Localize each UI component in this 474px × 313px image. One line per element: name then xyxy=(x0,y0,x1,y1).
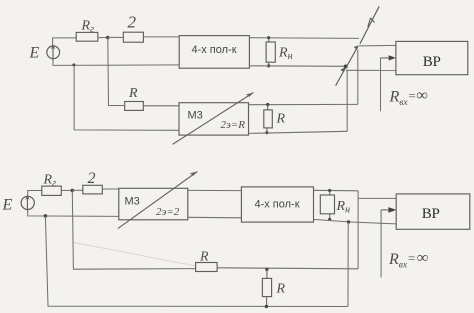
svg-text:2: 2 xyxy=(128,13,137,32)
svg-text:E: E xyxy=(2,197,13,214)
svg-text:4-х пол-к: 4-х пол-к xyxy=(254,199,299,211)
label Rg (bottom) xyxy=(43,173,57,190)
BP box (bottom circuit) xyxy=(396,194,470,229)
resistor Rn (load, bottom circuit) xyxy=(320,191,334,220)
node Rn top junction (bottom circuit) xyxy=(328,189,331,192)
wire return rail to BP (bottom input) xyxy=(346,69,396,71)
wire M3 output bottom rail xyxy=(249,131,348,133)
wire E bottom return rail (left part) xyxy=(53,59,179,66)
svg-text:E: E xyxy=(29,45,40,62)
wire vertical model-top to switch corner xyxy=(357,49,359,104)
BP input arrow (top circuit) xyxy=(381,55,396,111)
label E (source EMF, top circuit) xyxy=(29,45,40,62)
node Rn bottom junction xyxy=(267,64,270,67)
wire Z to four-pole box xyxy=(143,36,179,38)
adjustment arrow through M3 (top circuit) xyxy=(173,93,254,145)
wire return rail (right part, box to lever pivot) xyxy=(249,65,345,68)
wire four-pole to right corner (top rail, bottom circuit) xyxy=(314,189,359,192)
label Rg (top) xyxy=(81,19,95,36)
label R (series resistor, lower branch bottom circuit) xyxy=(199,250,209,265)
switch lever 2 (lower throw to pivot) xyxy=(336,67,346,86)
node R-vert top junction (bottom circuit) xyxy=(265,268,268,271)
wire node A to Z xyxy=(108,36,124,38)
label R (shunt, bottom) xyxy=(276,282,286,297)
wire node A down to model branch xyxy=(108,38,125,106)
label Z (bottom) xyxy=(88,170,96,187)
wire M3 to four-pole (bottom link, bottom circuit) xyxy=(188,216,242,219)
label Z (top) xyxy=(128,13,137,32)
wire four-pole to switch contact (top rail) xyxy=(249,37,359,40)
svg-text:ВР: ВР xyxy=(422,206,440,222)
label Rn (top) xyxy=(278,46,293,63)
wire right vertical from Rn-bottom rail to bottom-most rail xyxy=(347,222,349,306)
wire node C down to R branch xyxy=(72,190,195,269)
wire E bottom return rail (bottom circuit) xyxy=(28,210,119,217)
svg-text:М3: М3 xyxy=(125,196,140,208)
switch lever 1 (pivot to top contact) xyxy=(346,45,359,68)
BP box (top circuit) xyxy=(396,41,468,74)
node Rn bottom junction (bottom circuit) xyxy=(328,218,331,221)
M3 model box (bottom circuit) xyxy=(119,188,188,220)
wire right corner vertical (top rail down) xyxy=(357,191,359,269)
wire node B down to model return xyxy=(74,65,179,130)
switch open-throw arrow (top, diagonal) xyxy=(360,6,379,44)
node B (return rail branch to model loop) xyxy=(72,63,75,66)
wire E top to Rg (bottom circuit) xyxy=(28,191,42,197)
node lever pivot (return rail) xyxy=(344,65,348,69)
node R-vert top junction (model branch) xyxy=(266,103,269,106)
wire M3 to four-pole (top link, bottom circuit) xyxy=(188,189,242,191)
node R-vert bottom junction xyxy=(265,131,268,134)
label R (series resistor, model branch top) xyxy=(128,86,138,101)
wire Rg to node C xyxy=(61,189,72,191)
label R (model load, top) xyxy=(276,112,286,127)
resistor R (model load, top circuit) xyxy=(264,105,273,133)
svg-text:4-х пол-к: 4-х пол-к xyxy=(191,44,236,56)
label Rvx = infinity (bottom circuit) xyxy=(388,250,428,271)
wire node C to Z xyxy=(72,189,83,191)
svg-text:2э=R: 2э=R xyxy=(221,119,246,131)
resistor R (model branch, top circuit) xyxy=(125,102,144,111)
wire Z to M3 box (bottom circuit) xyxy=(102,188,119,190)
svg-text:М3: М3 xyxy=(188,110,203,122)
label E (source EMF, bottom circuit) xyxy=(2,197,13,214)
M3 model box (top circuit) xyxy=(179,103,249,135)
resistor R (lower branch, bottom circuit) xyxy=(196,263,218,272)
node R-vert bottom junction (bottom circuit) xyxy=(265,305,268,308)
node right-rail branch junction xyxy=(347,220,350,223)
four-pole network box (top circuit) xyxy=(179,36,249,69)
wire switch corner to BP (top input) xyxy=(359,44,396,47)
node A (junction dot after Rg) xyxy=(106,36,110,40)
resistor Z (bottom circuit) xyxy=(83,185,103,194)
wire corner to BP (top input, bottom circuit) xyxy=(358,197,396,199)
wire Rg to node A xyxy=(98,37,108,39)
wire bottom rail to BP (bottom circuit) xyxy=(314,219,397,224)
svg-text:2: 2 xyxy=(88,170,96,187)
node D (return rail branch, bottom circuit) xyxy=(44,214,48,218)
label Rvx = infinity (top circuit) xyxy=(389,87,428,108)
svg-text:ВР: ВР xyxy=(423,54,441,70)
resistor R (shunt, bottom circuit) xyxy=(262,269,271,306)
source E2 (circle with up arrow) xyxy=(21,195,34,211)
svg-text:R: R xyxy=(128,86,138,101)
resistor Rg (bottom circuit) xyxy=(42,186,62,195)
svg-text:2э=2: 2э=2 xyxy=(156,206,180,218)
adjustment arrow through M3 (bottom circuit) xyxy=(118,172,198,229)
node C (junction after Rg, bottom circuit) xyxy=(71,189,75,193)
resistor Rg (top circuit) xyxy=(76,32,98,41)
svg-text:R: R xyxy=(276,282,286,297)
label Rn (bottom) xyxy=(336,199,351,216)
BP input arrow (bottom circuit) xyxy=(381,207,396,277)
resistor Rn (load, top circuit) xyxy=(266,38,275,66)
four-pole network box (bottom circuit) xyxy=(241,187,313,222)
source E1 (circle with up arrow) xyxy=(47,44,60,60)
wire R to M3 box xyxy=(143,105,179,107)
wire M3 output top rail xyxy=(249,103,358,105)
node Rn top junction xyxy=(267,36,270,39)
resistor Z (top circuit) xyxy=(123,32,143,42)
wire node D down to bottom-most rail xyxy=(45,216,348,307)
wire R to right corner (lower branch) xyxy=(217,268,358,269)
wire E top to Rg xyxy=(53,38,77,46)
svg-text:R: R xyxy=(276,112,286,127)
wire (faint pencil stroke) xyxy=(74,243,196,267)
wire vertical model-bottom to lever pivot xyxy=(346,70,348,131)
